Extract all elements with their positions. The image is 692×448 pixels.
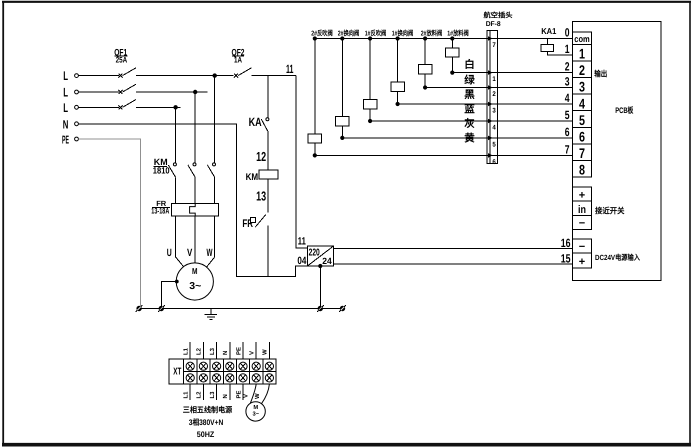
PCB board box xyxy=(573,22,662,281)
svg-text:白: 白 xyxy=(464,58,475,71)
wire XT to fan motor V xyxy=(242,384,256,403)
wire L1 after QF1 xyxy=(136,75,234,77)
wire phase drop 2 (from L2) xyxy=(194,92,196,163)
svg-text:1810: 1810 xyxy=(153,166,170,176)
wire XT top stub L2 xyxy=(196,342,204,359)
svg-text:蓝: 蓝 xyxy=(464,103,475,116)
svg-text:V: V xyxy=(249,351,256,355)
svg-text:2: 2 xyxy=(565,60,570,74)
wire phase drop 1 (from L3) xyxy=(175,107,177,163)
PCB terminal plus (proximity) xyxy=(573,187,592,201)
wire L1 to QF1 xyxy=(78,75,119,77)
svg-text:KA: KA xyxy=(249,115,262,129)
pin 7 xyxy=(487,36,498,49)
wire motor to ground rail xyxy=(161,282,176,309)
svg-text:L1: L1 xyxy=(183,391,190,399)
wire transformer to terminal 16 xyxy=(333,248,572,250)
svg-text:黄: 黄 xyxy=(464,132,475,145)
wire pin6 to PCB 7 xyxy=(498,154,573,156)
svg-text:12: 12 xyxy=(256,149,266,164)
pin 3 xyxy=(487,102,498,115)
svg-text:L3: L3 xyxy=(209,391,216,399)
terminal L1 xyxy=(63,69,78,83)
PCB terminal 5 xyxy=(573,111,592,128)
svg-text:W: W xyxy=(207,247,213,259)
svg-text:5: 5 xyxy=(579,112,585,128)
wire valve6 to pin 1 xyxy=(452,72,487,74)
wire L3 to QF1 xyxy=(78,106,119,108)
svg-text:V: V xyxy=(187,247,192,259)
svg-text:输出: 输出 xyxy=(594,70,607,79)
node L1 junction xyxy=(213,73,217,77)
junction symbol transformer-rail xyxy=(317,305,324,312)
svg-text:PCB板: PCB板 xyxy=(615,106,634,115)
wire valve common bus (net 0) xyxy=(315,38,573,40)
coil KM xyxy=(246,170,279,183)
terminal screws row 1 xyxy=(186,362,273,370)
wire W below FR xyxy=(205,216,214,269)
wire transformer to terminal 15 xyxy=(333,263,572,265)
junction symbol motor-rail xyxy=(158,305,165,312)
PCB terminal 8 xyxy=(573,161,592,178)
wire valve3 to pin 4 xyxy=(370,120,487,122)
svg-text:3相380V+N: 3相380V+N xyxy=(189,418,224,427)
svg-text:16: 16 xyxy=(561,236,571,250)
svg-text:1#放料阀: 1#放料阀 xyxy=(447,29,469,38)
breaker QF1 xyxy=(114,48,136,110)
svg-text:DC24V电源输入: DC24V电源输入 xyxy=(595,253,640,262)
svg-text:+: + xyxy=(579,189,585,201)
wire pin4 to PCB 5 xyxy=(498,120,573,122)
svg-text:绿: 绿 xyxy=(464,74,475,87)
ground rail xyxy=(139,308,342,310)
svg-text:5: 5 xyxy=(492,141,496,148)
svg-text:DF-8: DF-8 xyxy=(486,21,501,28)
svg-text:W: W xyxy=(254,393,261,399)
junction symbol PE-rail xyxy=(136,305,143,312)
svg-text:7: 7 xyxy=(492,42,496,49)
wire U below FR xyxy=(176,216,186,269)
svg-text:8: 8 xyxy=(579,162,585,178)
wire XT bottom stub L3 xyxy=(209,384,217,400)
node motor frame xyxy=(175,280,179,284)
thermal relay FR xyxy=(151,199,218,216)
svg-text:13: 13 xyxy=(256,189,266,204)
svg-text:24: 24 xyxy=(322,256,332,266)
svg-text:1: 1 xyxy=(565,42,570,56)
svg-text:L: L xyxy=(63,69,68,83)
junction symbol rail end xyxy=(339,305,346,312)
svg-text:U: U xyxy=(167,247,172,259)
wire L3 after QF1 xyxy=(136,106,180,108)
svg-text:2#放料阀: 2#放料阀 xyxy=(421,29,443,38)
svg-text:L2: L2 xyxy=(196,391,203,399)
svg-text:N: N xyxy=(63,117,69,131)
PCB terminal 7 xyxy=(573,144,592,161)
solenoid valve 2#换向阀 xyxy=(336,29,360,140)
svg-text:3~: 3~ xyxy=(252,411,259,418)
svg-text:KA1: KA1 xyxy=(541,26,556,36)
wire phase drop 3 (from L1) xyxy=(214,76,216,163)
wire pin5 to PCB 6 xyxy=(498,137,573,139)
svg-text:灰: 灰 xyxy=(464,117,475,130)
contactor KM main contacts xyxy=(153,157,216,203)
svg-text:+: + xyxy=(579,256,585,268)
pin 1 xyxy=(487,70,498,83)
PCB terminal in xyxy=(573,201,592,216)
svg-text:1#换向阀: 1#换向阀 xyxy=(392,29,414,38)
svg-text:航空插头: 航空插头 xyxy=(484,10,513,19)
wire PE xyxy=(78,139,140,309)
svg-text:2: 2 xyxy=(579,62,585,78)
wire KM coil to FR contact xyxy=(267,179,269,212)
svg-text:5: 5 xyxy=(565,108,570,122)
svg-text:1#反吹阀: 1#反吹阀 xyxy=(365,29,387,38)
svg-text:M: M xyxy=(253,405,258,411)
PCB terminal com xyxy=(573,32,592,44)
wire XT top stub N xyxy=(222,342,230,359)
svg-text:04: 04 xyxy=(297,255,306,267)
wire L2 to QF1 xyxy=(78,91,119,93)
PCB terminal 2 xyxy=(573,61,592,78)
svg-text:黑: 黑 xyxy=(464,89,475,101)
wire XT top stub W xyxy=(262,342,270,359)
svg-text:3: 3 xyxy=(492,108,496,115)
PCB terminal 6 xyxy=(573,127,592,144)
svg-text:L2: L2 xyxy=(196,347,203,355)
terminal PE xyxy=(62,134,78,146)
svg-text:−: − xyxy=(579,241,585,253)
terminal N xyxy=(63,117,79,131)
svg-text:N: N xyxy=(222,351,229,355)
solenoid valve 1#反吹阀 xyxy=(363,29,386,124)
wire XT top stub V xyxy=(249,342,257,359)
wire XT top stub L3 xyxy=(209,342,217,359)
wire XT top stub L1 xyxy=(183,342,191,359)
svg-text:KM: KM xyxy=(246,172,259,183)
wire XT bottom stub PE xyxy=(235,384,243,400)
svg-text:6: 6 xyxy=(492,159,496,166)
breaker QF2 xyxy=(232,48,252,78)
wire rail 11 down to transformer xyxy=(296,76,308,248)
wire XT to fan motor W xyxy=(254,384,270,404)
svg-text:13-18A: 13-18A xyxy=(151,207,169,216)
connector 航空插头 DF-8 xyxy=(484,10,513,163)
thermal contact FR xyxy=(242,215,265,231)
svg-text:com: com xyxy=(574,34,590,44)
svg-text:3~: 3~ xyxy=(189,281,201,292)
svg-text:PE: PE xyxy=(235,390,242,398)
wire FR contact to bottom xyxy=(267,226,269,277)
svg-text:6: 6 xyxy=(565,125,570,139)
node L2 junction xyxy=(193,90,197,94)
solenoid valve 1#放料阀 xyxy=(446,29,469,75)
wire V below FR xyxy=(194,216,196,263)
svg-text:L1: L1 xyxy=(183,347,190,355)
wire XT bottom stub L2 xyxy=(196,384,204,400)
svg-text:0: 0 xyxy=(565,25,570,39)
wire pin2 to PCB 3 xyxy=(498,87,573,89)
wire valve1 to pin 6 xyxy=(315,154,487,156)
wire XT bottom stub L1 xyxy=(183,384,191,400)
wire XT top stub PE xyxy=(235,342,243,359)
solenoid valve 2#放料阀 xyxy=(418,29,442,90)
relay contact KA xyxy=(249,76,269,171)
solenoid valve 2#反吹阀 xyxy=(308,29,333,158)
PCB terminal minus (proximity) xyxy=(573,216,592,230)
svg-text:2#换向阀: 2#换向阀 xyxy=(338,29,360,38)
svg-text:1: 1 xyxy=(579,46,585,62)
pin 2 xyxy=(487,85,498,98)
fan motor M 3~ xyxy=(246,402,265,421)
svg-text:V: V xyxy=(242,394,249,398)
svg-text:4: 4 xyxy=(492,125,496,132)
svg-text:7: 7 xyxy=(565,142,570,156)
node transformer bottom xyxy=(318,264,322,268)
solenoid valve 1#换向阀 xyxy=(391,29,413,107)
PCB terminal plus (DC24V) xyxy=(573,253,592,268)
wire valve4 to pin 3 xyxy=(398,103,487,105)
svg-text:M: M xyxy=(192,266,198,276)
node L3 junction xyxy=(173,105,177,109)
relay coil KA1 xyxy=(541,26,572,55)
svg-text:XT: XT xyxy=(173,367,181,378)
pin 5 xyxy=(487,136,498,149)
svg-text:50HZ: 50HZ xyxy=(197,430,215,439)
svg-text:3: 3 xyxy=(579,79,585,95)
terminal L2 xyxy=(63,86,78,100)
wire transformer secondary to ground xyxy=(319,266,321,309)
wire valve5 to pin 2 xyxy=(425,87,487,89)
svg-text:7: 7 xyxy=(579,145,585,161)
svg-text:4: 4 xyxy=(565,91,570,105)
svg-text:L: L xyxy=(63,86,68,100)
svg-text:N: N xyxy=(222,394,229,398)
wire QF2 to rail 11 xyxy=(252,75,296,77)
svg-text:11: 11 xyxy=(286,62,294,76)
svg-text:2#反吹阀: 2#反吹阀 xyxy=(311,29,333,38)
svg-text:−: − xyxy=(579,217,585,229)
svg-text:PE: PE xyxy=(235,347,242,355)
pin 4 xyxy=(487,119,498,132)
transformer T 220/24 xyxy=(307,246,333,266)
svg-text:L3: L3 xyxy=(209,347,216,355)
wire XT bottom stub N xyxy=(222,384,230,400)
svg-text:PE: PE xyxy=(62,134,69,146)
svg-text:1A: 1A xyxy=(234,56,242,65)
svg-text:220: 220 xyxy=(309,248,320,259)
PCB terminal minus (DC24V) xyxy=(573,239,592,253)
terminal block XT xyxy=(169,359,276,384)
svg-text:in: in xyxy=(578,204,586,216)
svg-text:4: 4 xyxy=(579,95,585,111)
terminal L3 xyxy=(63,101,78,115)
svg-text:三相五线制电源: 三相五线制电源 xyxy=(183,406,233,415)
wire valve2 to pin 5 xyxy=(342,137,487,139)
pin 6 xyxy=(487,153,498,166)
svg-text:15: 15 xyxy=(561,251,571,265)
svg-text:11: 11 xyxy=(298,236,306,248)
wire pin1 to PCB 2 xyxy=(498,72,573,74)
motor M 3~ xyxy=(176,263,213,300)
svg-text:L: L xyxy=(63,101,68,115)
ground symbol xyxy=(205,309,218,320)
svg-text:1: 1 xyxy=(492,76,496,83)
PCB terminal 1 xyxy=(573,44,592,61)
svg-text:6: 6 xyxy=(579,129,585,145)
wire N xyxy=(78,124,307,277)
svg-text:2: 2 xyxy=(492,91,496,98)
svg-text:W: W xyxy=(262,349,269,355)
svg-text:25A: 25A xyxy=(116,56,128,65)
PCB terminal 4 xyxy=(573,94,592,111)
terminal screws row 2 xyxy=(186,374,273,382)
wire pin3 to PCB 4 xyxy=(498,103,573,105)
svg-text:接近开关: 接近开关 xyxy=(595,206,625,215)
wire L2 after QF1 xyxy=(136,91,208,93)
PCB terminal 3 xyxy=(573,78,592,95)
svg-text:3: 3 xyxy=(565,75,570,89)
